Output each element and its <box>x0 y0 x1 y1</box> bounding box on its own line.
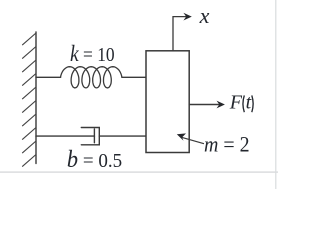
svg-text:x: x <box>199 3 210 28</box>
bottom rule <box>0 171 278 172</box>
spring k coil <box>61 67 122 88</box>
wall hatch 6 <box>23 101 37 113</box>
mass block m <box>146 51 189 153</box>
wire spring left lead <box>36 76 61 78</box>
svg-text:k = 10: k = 10 <box>70 41 115 67</box>
arrowhead F(t) <box>217 101 225 109</box>
wall hatch 8 <box>23 128 37 140</box>
damper piston plate <box>93 129 95 143</box>
arrowhead m=2 pointer <box>177 133 186 140</box>
wall hatch 10 <box>23 155 37 167</box>
wire spring right lead <box>122 76 146 78</box>
wall hatch 7 <box>23 114 37 126</box>
wall hatch 4 <box>23 74 37 86</box>
damper cylinder <box>81 128 99 145</box>
wire x-arrow stem <box>173 17 187 51</box>
wire damper right rod <box>99 135 146 137</box>
arrowhead x <box>183 13 191 21</box>
svg-text:t: t <box>246 92 252 114</box>
label F(t) close paren <box>252 95 253 112</box>
svg-text:F: F <box>229 92 243 114</box>
wall <box>35 32 37 164</box>
wire F(t) arrow shaft <box>189 104 220 106</box>
wire m=2 pointer shaft <box>182 137 204 143</box>
wall hatch 3 <box>23 60 37 72</box>
wall hatch 5 <box>23 87 37 99</box>
svg-text:b = 0.5: b = 0.5 <box>67 146 122 173</box>
wire damper left rod <box>36 135 94 137</box>
wall hatch 2 <box>23 47 37 59</box>
label F(t) open paren <box>243 95 244 112</box>
wall hatch 9 <box>23 141 37 153</box>
svg-text:m = 2: m = 2 <box>204 132 250 157</box>
right edge rule <box>275 0 276 189</box>
wall hatch 1 <box>23 33 37 45</box>
